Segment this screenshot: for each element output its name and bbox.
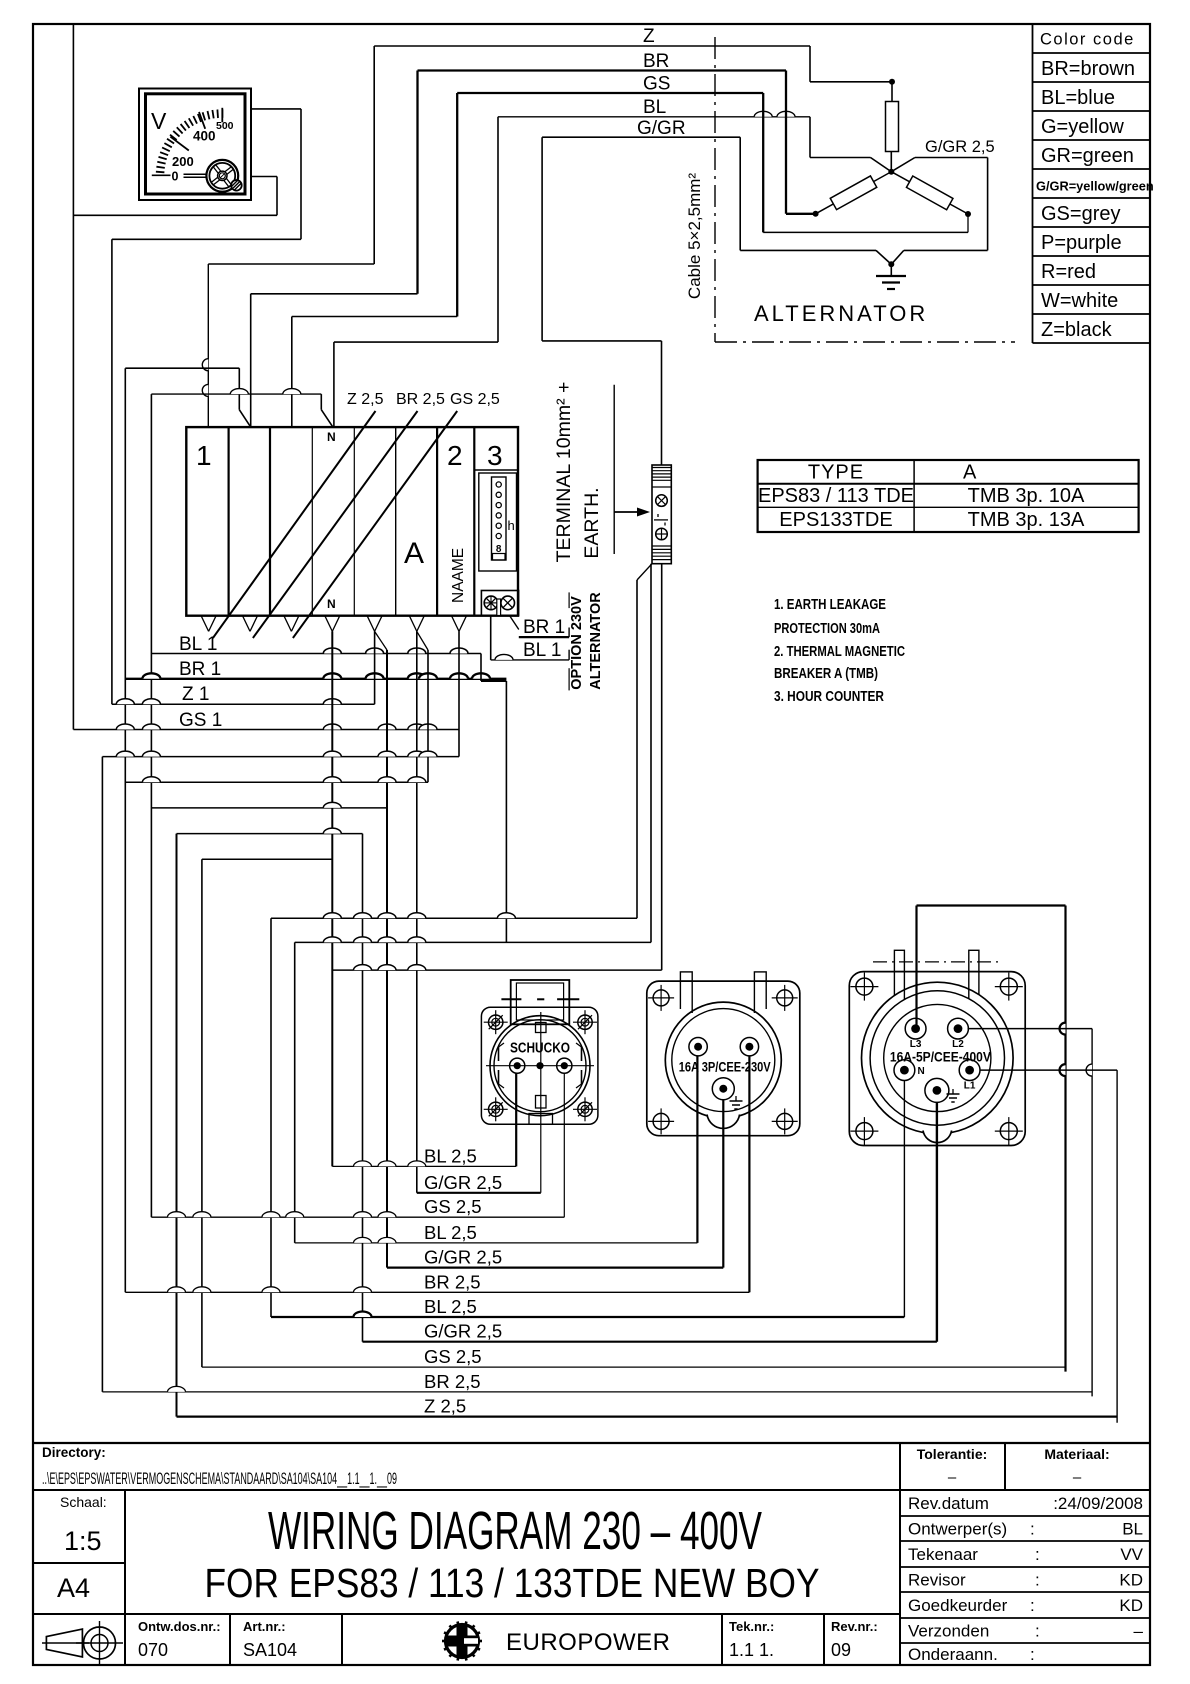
svg-text:1: 1 xyxy=(196,440,212,471)
svg-text:Ontwerper(s): Ontwerper(s) xyxy=(908,1520,1007,1539)
svg-text:L3: L3 xyxy=(910,1039,922,1050)
svg-text:N: N xyxy=(327,597,336,611)
svg-text:TMB 3p. 13A: TMB 3p. 13A xyxy=(968,509,1085,531)
svg-text:ALTERNATOR: ALTERNATOR xyxy=(754,301,928,326)
svg-text:P=purple: P=purple xyxy=(1041,232,1122,254)
svg-text:A4: A4 xyxy=(57,1573,90,1603)
svg-text:G/GR 2,5: G/GR 2,5 xyxy=(925,138,995,156)
svg-text:16A-5P/CEE-400V: 16A-5P/CEE-400V xyxy=(890,1050,991,1065)
svg-text:BR=brown: BR=brown xyxy=(1041,58,1135,80)
svg-text:Color code: Color code xyxy=(1040,31,1135,49)
svg-text:BL 2,5: BL 2,5 xyxy=(424,1296,477,1317)
svg-text:WIRING DIAGRAM 230 – 400V: WIRING DIAGRAM 230 – 400V xyxy=(268,1501,762,1561)
svg-text:NAAME: NAAME xyxy=(450,548,467,603)
svg-text:Z=black: Z=black xyxy=(1041,319,1113,341)
svg-text:PROTECTION 30mA: PROTECTION 30mA xyxy=(774,621,880,637)
svg-text:BL: BL xyxy=(643,97,666,118)
svg-text:0: 0 xyxy=(172,170,179,184)
svg-text:OPTION 230V: OPTION 230V xyxy=(569,596,585,690)
svg-text::: : xyxy=(1035,1622,1040,1641)
svg-text:Directory:: Directory: xyxy=(42,1445,106,1460)
svg-text:G=yellow: G=yellow xyxy=(1041,116,1124,138)
svg-text:KD: KD xyxy=(1119,1571,1143,1590)
svg-text:070: 070 xyxy=(138,1640,168,1660)
svg-text:Z 1: Z 1 xyxy=(182,684,209,705)
svg-text:GS: GS xyxy=(643,74,670,95)
svg-text:N: N xyxy=(327,430,336,444)
svg-text:L1: L1 xyxy=(964,1081,976,1092)
svg-text:BR: BR xyxy=(643,51,669,72)
svg-text:BR 1: BR 1 xyxy=(523,617,565,638)
svg-text:..\E\EPS\EPSWATER\VERMOGENSCHE: ..\E\EPS\EPSWATER\VERMOGENSCHEMA\STANDAA… xyxy=(42,1470,397,1488)
svg-text:Revisor: Revisor xyxy=(908,1571,966,1590)
svg-text:Rev.datum: Rev.datum xyxy=(908,1494,989,1513)
svg-text:BL 1: BL 1 xyxy=(523,640,561,661)
svg-text:W=white: W=white xyxy=(1041,290,1118,312)
svg-text:EPS133TDE: EPS133TDE xyxy=(779,509,892,531)
svg-text:–: – xyxy=(948,1469,957,1486)
svg-text:Cable 5×2,5mm²: Cable 5×2,5mm² xyxy=(685,173,704,299)
svg-text:Art.nr.:: Art.nr.: xyxy=(243,1619,286,1634)
svg-text:ALTERNATOR: ALTERNATOR xyxy=(588,592,604,690)
svg-text:BR 2,5: BR 2,5 xyxy=(424,1371,481,1392)
svg-text:R=red: R=red xyxy=(1041,261,1096,283)
svg-text:Z 2,5: Z 2,5 xyxy=(347,391,384,408)
svg-text:500: 500 xyxy=(216,120,234,132)
svg-text:–: – xyxy=(1073,1469,1082,1486)
svg-text:SA104: SA104 xyxy=(243,1640,297,1660)
svg-text:Ontw.dos.nr.:: Ontw.dos.nr.: xyxy=(138,1619,221,1634)
svg-text:1:5: 1:5 xyxy=(64,1526,102,1556)
svg-text:BL 2,5: BL 2,5 xyxy=(424,1222,477,1243)
svg-text:–: – xyxy=(1134,1622,1144,1641)
svg-text:Z: Z xyxy=(643,26,655,47)
svg-text:Rev.nr.:: Rev.nr.: xyxy=(831,1619,878,1634)
svg-text:200: 200 xyxy=(172,154,194,169)
svg-text:BREAKER A (TMB): BREAKER A (TMB) xyxy=(774,666,878,682)
svg-text:Onderaann.: Onderaann. xyxy=(908,1645,998,1664)
svg-text:G/GR 2,5: G/GR 2,5 xyxy=(424,1321,502,1342)
svg-text::: : xyxy=(1030,1520,1035,1539)
svg-text:BL 1: BL 1 xyxy=(179,634,217,655)
svg-text:L2: L2 xyxy=(952,1039,964,1050)
svg-text:A: A xyxy=(963,462,977,484)
svg-text:N: N xyxy=(918,1066,925,1077)
svg-text:BR 2,5: BR 2,5 xyxy=(424,1271,481,1292)
svg-text::: : xyxy=(1030,1596,1035,1615)
svg-text:BR 2,5: BR 2,5 xyxy=(396,391,445,408)
svg-text:Z 2,5: Z 2,5 xyxy=(424,1396,466,1417)
svg-text:1.1 1.: 1.1 1. xyxy=(729,1640,774,1660)
svg-text:3: 3 xyxy=(487,440,503,471)
svg-text:BL: BL xyxy=(1122,1520,1143,1539)
svg-text:VV: VV xyxy=(1120,1545,1143,1564)
svg-text:1. EARTH LEAKAGE: 1. EARTH LEAKAGE xyxy=(774,597,886,613)
svg-text:Tolerantie:: Tolerantie: xyxy=(917,1446,988,1462)
svg-text::: : xyxy=(1035,1545,1040,1564)
svg-text:BR 1: BR 1 xyxy=(179,659,221,680)
svg-text:EPS83 / 113 TDE: EPS83 / 113 TDE xyxy=(758,485,914,507)
svg-text:2: 2 xyxy=(447,440,463,471)
svg-text:3. HOUR COUNTER: 3. HOUR COUNTER xyxy=(774,689,884,705)
svg-text::24/09/2008: :24/09/2008 xyxy=(1053,1494,1143,1513)
svg-text:EARTH.: EARTH. xyxy=(581,487,603,558)
svg-text:G/GR 2,5: G/GR 2,5 xyxy=(424,1247,502,1268)
svg-text:GR=green: GR=green xyxy=(1041,145,1134,167)
svg-text:400: 400 xyxy=(193,129,216,144)
svg-text:Tek.nr.:: Tek.nr.: xyxy=(729,1619,774,1634)
svg-text:BL 2,5: BL 2,5 xyxy=(424,1145,477,1166)
svg-text:GS 1: GS 1 xyxy=(179,710,222,731)
svg-text:EUROPOWER: EUROPOWER xyxy=(506,1629,671,1656)
svg-text:h: h xyxy=(508,518,515,533)
svg-text:V: V xyxy=(151,108,167,134)
svg-text:GS=grey: GS=grey xyxy=(1041,203,1120,225)
svg-text:GS 2,5: GS 2,5 xyxy=(424,1346,482,1367)
svg-text:TERMINAL 10mm² +: TERMINAL 10mm² + xyxy=(553,382,575,563)
svg-text:A: A xyxy=(404,537,424,570)
svg-text::: : xyxy=(1030,1645,1035,1664)
svg-text:G/GR: G/GR xyxy=(637,118,686,139)
svg-text:G/GR 2,5: G/GR 2,5 xyxy=(424,1172,502,1193)
svg-text:GS 2,5: GS 2,5 xyxy=(450,391,500,408)
svg-text:GS 2,5: GS 2,5 xyxy=(424,1196,482,1217)
svg-text:BL=blue: BL=blue xyxy=(1041,87,1115,109)
svg-text:Schaal:: Schaal: xyxy=(60,1494,107,1510)
svg-text:KD: KD xyxy=(1119,1596,1143,1615)
svg-text:G/GR=yellow/green: G/GR=yellow/green xyxy=(1036,179,1154,194)
svg-text::: : xyxy=(1035,1571,1040,1590)
svg-text:SCHUCKO: SCHUCKO xyxy=(510,1041,570,1057)
svg-text:Materiaal:: Materiaal: xyxy=(1044,1446,1109,1462)
svg-text:2. THERMAL MAGNETIC: 2. THERMAL MAGNETIC xyxy=(774,644,905,660)
svg-text:TMB 3p. 10A: TMB 3p. 10A xyxy=(968,485,1085,507)
svg-text:Tekenaar: Tekenaar xyxy=(908,1545,978,1564)
svg-text:Verzonden: Verzonden xyxy=(908,1622,989,1641)
svg-text:TYPE: TYPE xyxy=(808,462,864,484)
svg-text:09: 09 xyxy=(831,1640,851,1660)
svg-text:FOR EPS83 / 113 / 133TDE NEW B: FOR EPS83 / 113 / 133TDE NEW BOY xyxy=(205,1560,820,1606)
svg-text:Goedkeurder: Goedkeurder xyxy=(908,1596,1008,1615)
svg-text:16A 3P/CEE-230V: 16A 3P/CEE-230V xyxy=(679,1060,771,1075)
